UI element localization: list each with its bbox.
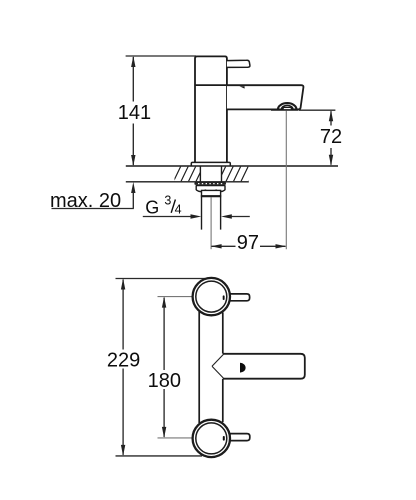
svg-text:3: 3 <box>164 194 171 208</box>
svg-text:72: 72 <box>320 126 342 148</box>
svg-text:97: 97 <box>237 232 259 254</box>
svg-text:4: 4 <box>175 203 182 217</box>
svg-text:180: 180 <box>148 370 181 392</box>
svg-text:141: 141 <box>118 102 151 124</box>
svg-text:229: 229 <box>107 349 140 371</box>
svg-text:G: G <box>145 198 159 218</box>
svg-text:max. 20: max. 20 <box>50 190 121 212</box>
